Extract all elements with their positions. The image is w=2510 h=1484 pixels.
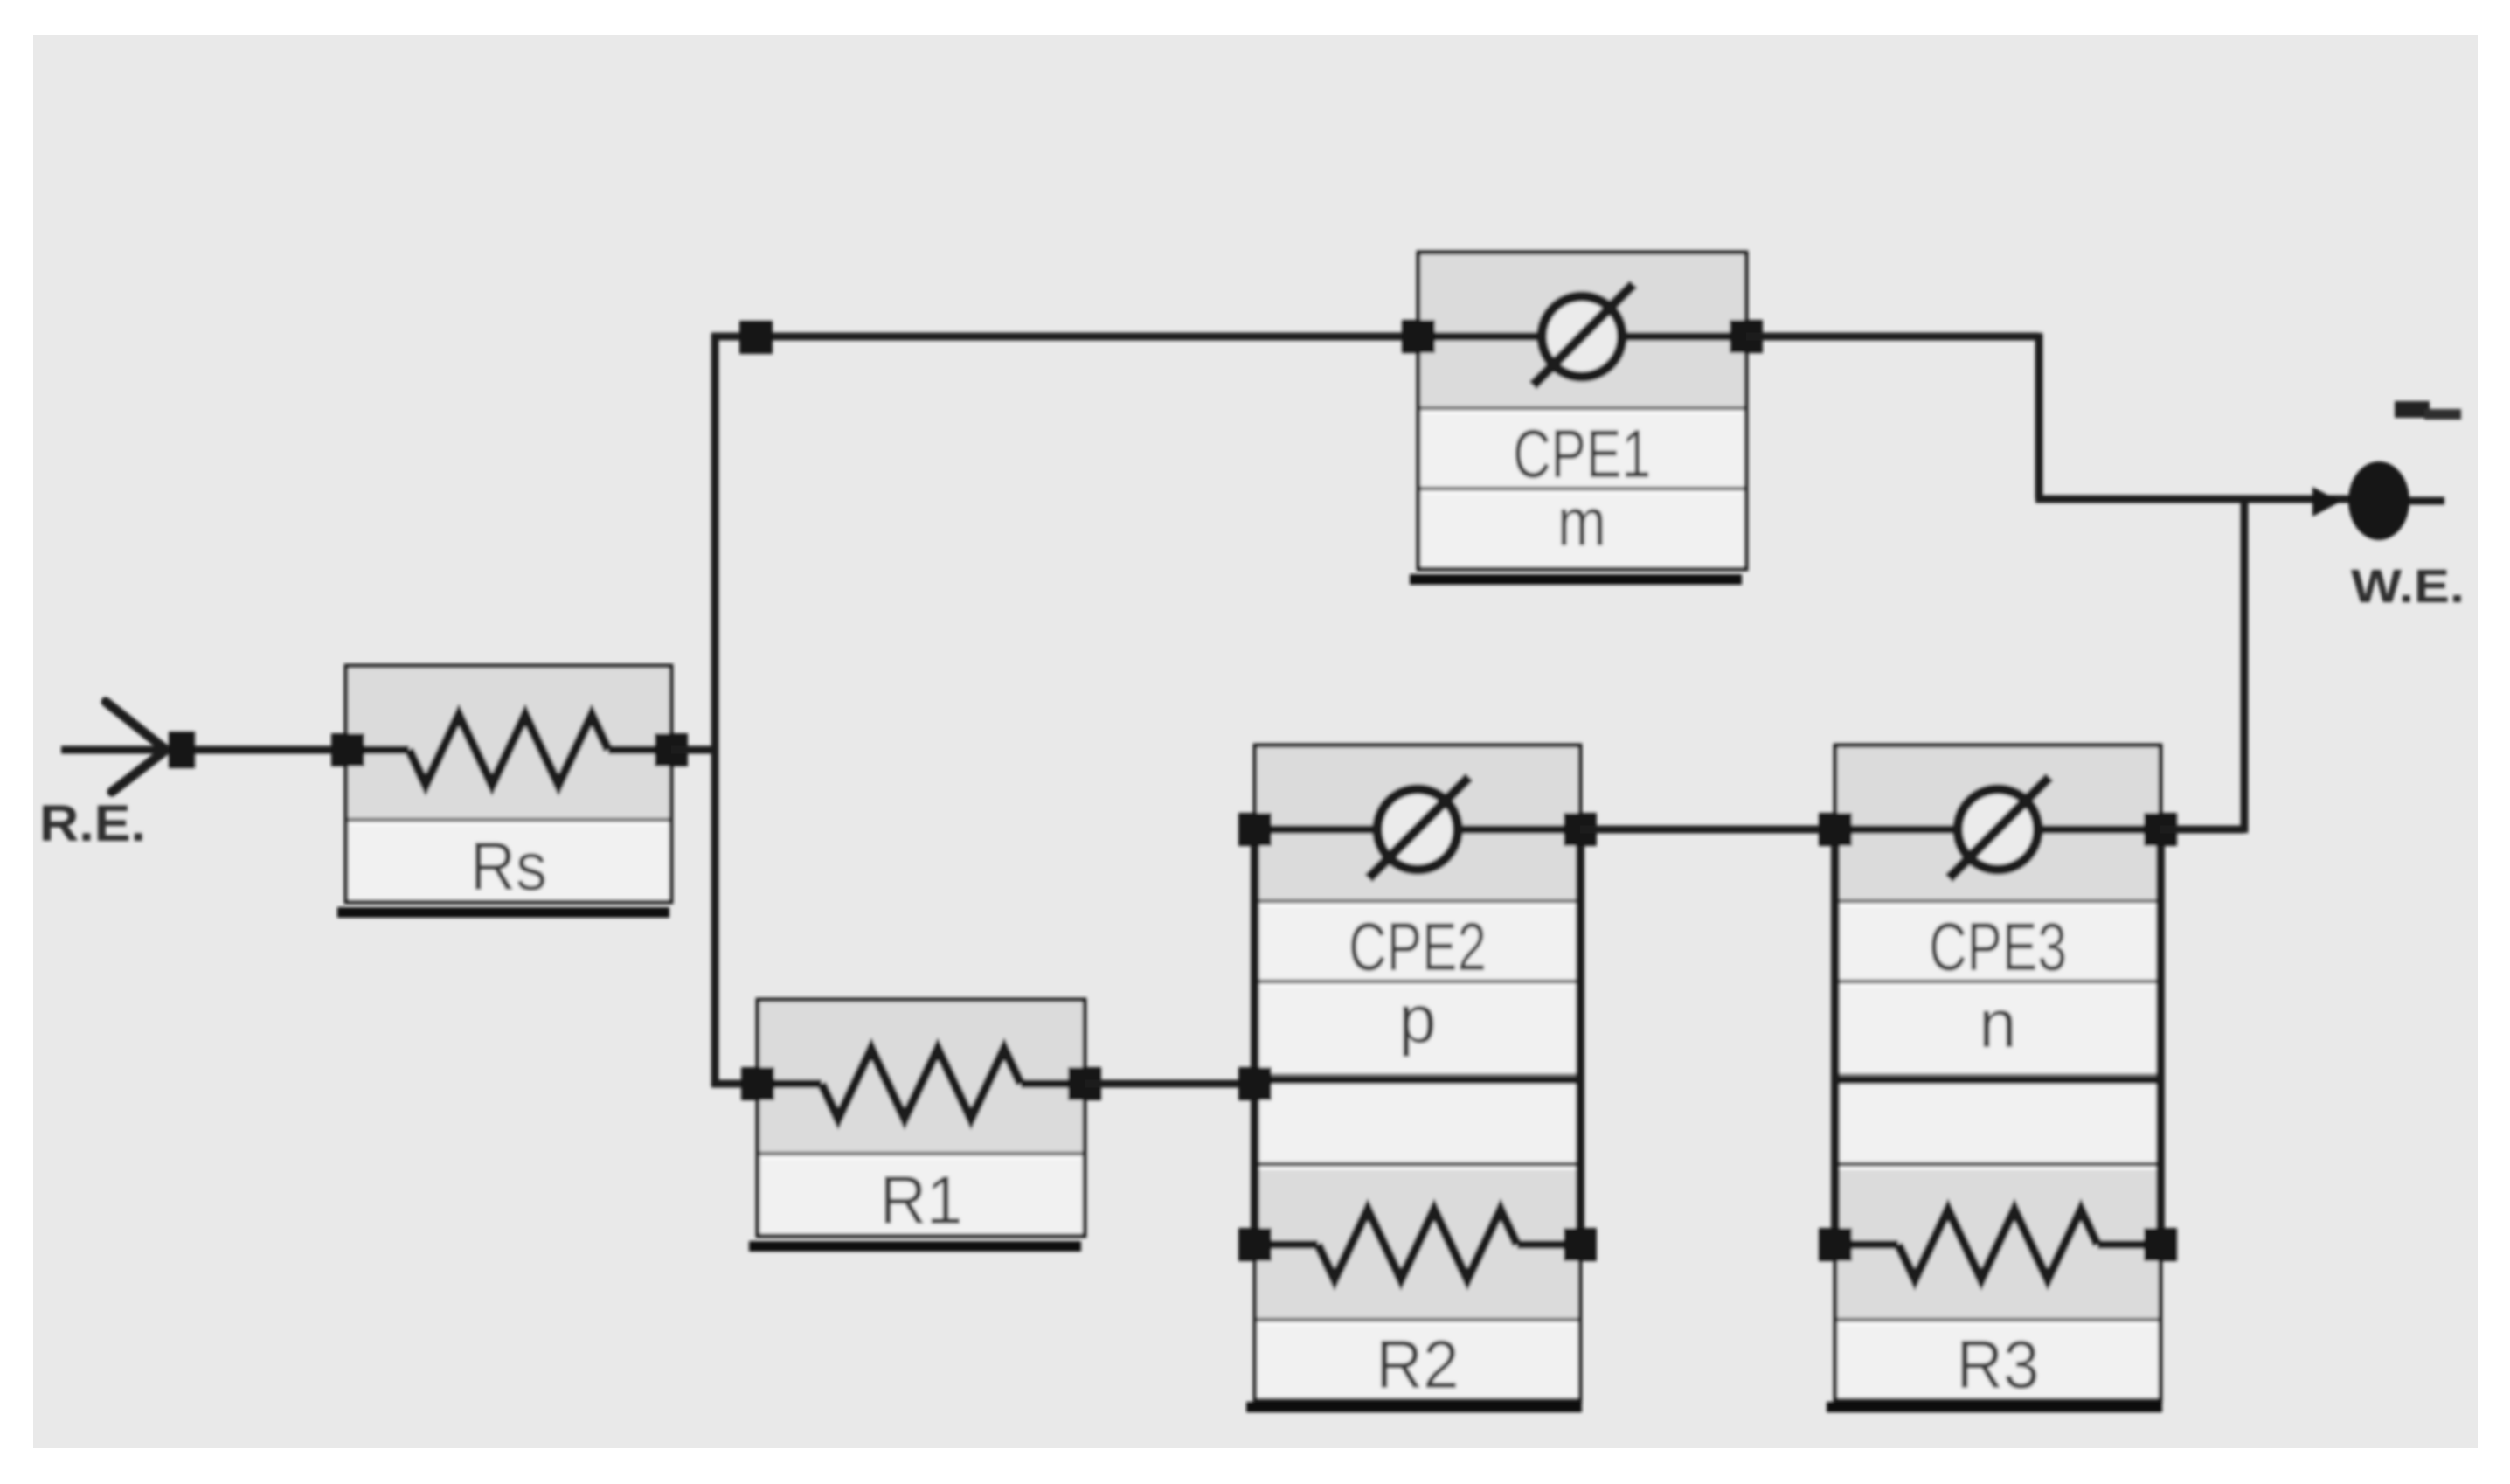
parallel block CPE2-R2 frame [1255,745,1580,1400]
resistor Rs [346,666,671,902]
node CPE2 left [1238,813,1272,846]
wire Rs to trunk [671,746,718,754]
wire to W.E. [2035,496,2353,503]
shadow CPE1 [1410,574,1742,585]
node top branch [739,321,773,354]
wire W.E. stub [2409,497,2444,505]
node CPE1 left [1402,320,1435,353]
node Rs right [655,733,688,766]
svg-text:CPE3: CPE3 [1929,908,2067,985]
svg-text:R2: R2 [1376,1326,1460,1403]
wire trunk to R1 [711,1080,758,1088]
node CPE3 left [1819,813,1852,846]
terminal R.E. arrow [106,702,166,792]
shadow R1 [749,1241,1081,1252]
svg-text:Rs: Rs [470,828,547,905]
svg-text:R3: R3 [1957,1326,2040,1403]
node CPE2 right [1564,813,1597,846]
parallel block CPE3-R3 frame [1835,745,2160,1400]
node R.E. connection [169,732,195,768]
wire corner down [2035,333,2043,499]
wire trunk vertical [711,333,719,1087]
wire top branch to CPE1 [711,333,1418,341]
wire CPE3 to riser [2160,826,2244,834]
wire riser to W.E. line [2241,496,2249,833]
node R2 left [1238,1228,1272,1261]
node R1 right [1068,1067,1101,1100]
node R3 right [2144,1228,2177,1261]
resistor R1 [758,1000,1085,1236]
resistor R3 zigzag [1835,1210,2160,1279]
wire R.E. to Rs [61,746,348,754]
capacitor CPE1 (constant phase element) [1418,253,1746,569]
node R1 left [741,1067,774,1100]
shadow CPE3-R3 [1827,1402,2162,1412]
wire CPE2 to CPE3 [1580,826,1835,834]
svg-text:W.E.: W.E. [2351,560,2465,613]
node Rs left [331,733,364,766]
terminal W.E. circle [2348,461,2409,540]
svg-text:m: m [1557,483,1606,560]
svg-text:R.E.: R.E. [39,795,146,852]
node CPE3 right [2144,813,2177,846]
wire CPE1 to corner [1746,333,2039,341]
capacitor CPE3 symbol [1835,777,2160,878]
wire R1 to CPE2 block [1085,1080,1258,1088]
node CPE2 block input [1238,1067,1272,1100]
svg-text:CPE2: CPE2 [1349,908,1487,985]
resistor R2 zigzag [1255,1210,1580,1279]
minus mark above W.E. [2395,401,2430,418]
shadow CPE2-R2 [1246,1402,1582,1412]
arrowhead W.E. [2312,487,2340,517]
capacitor CPE2 symbol [1255,777,1580,878]
svg-text:R1: R1 [880,1162,963,1238]
node R2 right [1564,1228,1597,1261]
shadow Rs [337,907,669,918]
svg-text:p: p [1398,981,1436,1058]
svg-text:CPE1: CPE1 [1513,415,1651,492]
node R3 left [1819,1228,1852,1261]
svg-text:n: n [1979,985,2016,1062]
node CPE1 right [1730,320,1763,353]
